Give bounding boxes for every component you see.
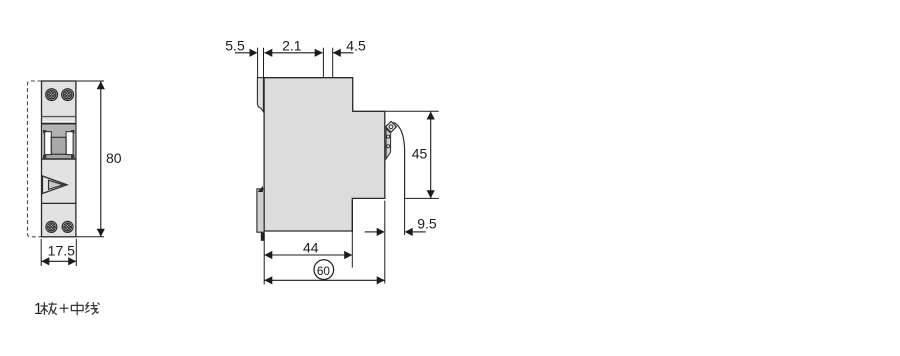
breaker front body — [42, 81, 76, 237]
svg-text:2.1: 2.1 — [282, 37, 302, 53]
svg-text:44: 44 — [303, 239, 319, 255]
divider line lower — [42, 202, 76, 204]
glyph 中 — [71, 302, 83, 314]
top terminal screw right — [62, 83, 74, 106]
caption: 1极+中线 — [34, 301, 99, 318]
toggle recess top line — [42, 123, 76, 125]
side body — [264, 78, 385, 231]
divider line upper — [42, 116, 76, 118]
bottom terminal screw right — [62, 215, 74, 238]
svg-text:60: 60 — [317, 264, 331, 278]
dimension 60 — [264, 201, 385, 285]
glyph 极 — [41, 303, 57, 315]
dimension 2.1 — [264, 37, 324, 77]
dimension 9.5 — [365, 198, 437, 236]
indicator triangle outer — [43, 176, 68, 194]
svg-text:4.5: 4.5 — [346, 37, 366, 53]
svg-text:80: 80 — [106, 150, 122, 166]
toggle recess ridge highlight — [42, 121, 75, 123]
top terminal screw left — [46, 83, 58, 106]
dimension 44 — [264, 201, 352, 285]
dashed outline of adjacent module — [28, 81, 42, 237]
dimension 5.5 — [225, 37, 257, 77]
svg-text:45: 45 — [412, 146, 428, 162]
svg-text:9.5: 9.5 — [417, 215, 437, 231]
dimension 17.5 — [41, 239, 76, 266]
recess corner nubs — [43, 130, 75, 158]
svg-text:5.5: 5.5 — [225, 37, 245, 53]
front face curve — [393, 122, 404, 198]
svg-text:17.5: 17.5 — [48, 242, 75, 258]
toggle pivot diamond — [386, 121, 397, 132]
dimension 80 — [77, 81, 122, 237]
indicator triangle inner — [49, 180, 64, 189]
toggle lever strip (side) — [386, 129, 391, 159]
din-rail tab top-left — [257, 78, 263, 112]
toggle handle center — [51, 137, 66, 154]
toggle side bar left — [45, 132, 52, 155]
bottom terminal screw left — [45, 215, 57, 238]
glyph 线 — [86, 303, 100, 315]
toggle side bar right — [66, 132, 73, 155]
din-rail clip bottom-left — [257, 186, 265, 241]
dimension 45 — [385, 111, 439, 198]
svg-text:1: 1 — [34, 301, 43, 318]
dimension 4.5 — [333, 37, 366, 77]
toggle recess band — [42, 125, 76, 160]
